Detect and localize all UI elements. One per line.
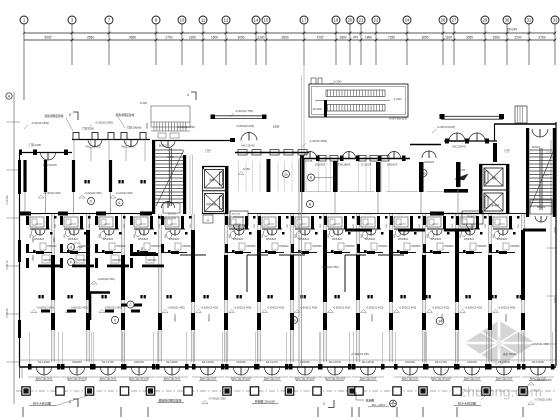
column square at x60 — [56, 387, 64, 395]
svg-text:LW1830: LW1830 — [72, 360, 82, 364]
svg-text:PM0822: PM0822 — [345, 245, 355, 248]
svg-text:-0.200(21.850): -0.200(21.850) — [31, 121, 49, 125]
svg-text:800 900: 800 900 — [137, 214, 146, 216]
svg-text:11: 11 — [201, 18, 206, 23]
svg-text:MLC29′30: MLC29′30 — [329, 360, 342, 364]
svg-text:3650: 3650 — [281, 36, 288, 40]
svg-text:1100: 1100 — [445, 36, 452, 40]
svg-text:1800: 1800 — [339, 36, 346, 40]
svg-text:1100: 1100 — [258, 36, 265, 40]
svg-text:PM0822: PM0822 — [444, 245, 454, 248]
svg-text:zhulong.com: zhulong.com — [460, 384, 543, 400]
svg-text:2200: 2200 — [189, 36, 196, 40]
svg-text:10: 10 — [180, 18, 185, 23]
svg-text:WM0822: WM0822 — [464, 238, 475, 241]
svg-text:-0.600(22.450): -0.600(22.450) — [333, 306, 351, 310]
ramp detail box inner — [312, 87, 406, 115]
svg-text:6: 6 — [119, 201, 121, 205]
L-shaped balcony walls lower mid — [247, 255, 268, 292]
stair core 1 outer walls — [152, 140, 155, 214]
svg-text:担架电梯: 担架电梯 — [206, 202, 217, 206]
svg-text:电梯: 电梯 — [491, 176, 497, 180]
elevator car 1A — [205, 170, 224, 189]
svg-text:30: 30 — [422, 172, 426, 176]
svg-text:WM0822: WM0822 — [398, 238, 409, 241]
bathroom cluster at x460 — [460, 217, 474, 227]
svg-text:LC41'16: LC41'16 — [5, 260, 9, 270]
connector wall x494 — [494, 124, 496, 141]
svg-text:WM0822: WM0822 — [299, 238, 310, 241]
svg-text:阳台门洞 2100: 阳台门洞 2100 — [100, 377, 117, 381]
svg-text:-0.300(21.750): -0.300(21.750) — [235, 109, 253, 113]
svg-text:LW1830: LW1830 — [236, 360, 246, 364]
column square at x26 — [22, 387, 30, 395]
jambs far-left — [33, 150, 37, 156]
svg-text:800 900: 800 900 — [265, 214, 274, 216]
svg-text:门洞 2100: 门洞 2100 — [29, 143, 41, 147]
stair 1 bottom landing box — [163, 203, 180, 213]
svg-text:阳台 200x60: 阳台 200x60 — [503, 352, 517, 356]
svg-text:470: 470 — [353, 36, 359, 40]
last mid unit window arcs LW1824b — [422, 151, 429, 158]
svg-text:±0.000: ±0.000 — [312, 107, 321, 111]
column square at x523 — [519, 387, 527, 395]
svg-text:31: 31 — [527, 18, 532, 23]
svg-text:7250: 7250 — [388, 36, 395, 40]
wall post bumps on top wall — [73, 133, 79, 140]
svg-text:69.040: 69.040 — [507, 28, 517, 32]
svg-text:-0.600(22.450): -0.600(22.450) — [97, 277, 115, 281]
svg-text:2700: 2700 — [538, 36, 545, 40]
svg-text:29: 29 — [483, 18, 488, 23]
svg-text:250/20: 250/20 — [291, 314, 294, 322]
svg-text:阳台门洞 2100: 阳台门洞 2100 — [496, 377, 513, 381]
bathroom cluster at x165 — [165, 217, 179, 227]
toilet in cluster x460 — [461, 229, 466, 236]
svg-text:250/20: 250/20 — [505, 314, 508, 322]
svg-text:-0.100(21.850): -0.100(21.850) — [177, 125, 195, 129]
svg-text:PM0822: PM0822 — [116, 245, 126, 248]
svg-text:-0.100(22.950): -0.100(22.950) — [43, 191, 61, 195]
door arcs MLC3625 — [41, 153, 49, 161]
svg-text:-0.025(13.025): -0.025(13.025) — [437, 125, 455, 129]
bathroom cluster at x64 — [64, 217, 78, 227]
bathroom cluster at x30 — [30, 217, 44, 227]
bottom axis dashed line — [16, 390, 556, 392]
svg-text:800 900: 800 900 — [364, 214, 373, 216]
party wall x193 — [191, 214, 193, 362]
svg-text:柱子大样详图: 柱子大样详图 — [458, 401, 476, 406]
svg-text:-0.600(22.450): -0.600(22.450) — [432, 306, 450, 310]
bottom ticks — [22, 407, 24, 417]
svg-text:MW0822: MW0822 — [43, 260, 53, 262]
column square at x150 — [146, 387, 154, 395]
entry door arcs MLC2040 no2 (opening up) — [449, 133, 457, 141]
svg-text:-1.200: -1.200 — [393, 97, 402, 101]
svg-text:-0.600(22.450): -0.600(22.450) — [70, 306, 88, 310]
svg-text:MLC2040: MLC2040 — [241, 144, 254, 148]
svg-text:PM0822: PM0822 — [279, 245, 289, 248]
svg-text:2650: 2650 — [87, 36, 94, 40]
svg-text:-0.300: -0.300 — [139, 101, 147, 105]
elevator car 1B — [205, 194, 224, 212]
grid axis 1 — [20, 16, 28, 24]
svg-text:17: 17 — [302, 18, 307, 23]
svg-text:PM0822: PM0822 — [81, 245, 91, 248]
svg-text:800 900: 800 900 — [33, 214, 42, 216]
column square at x227 — [223, 387, 231, 395]
svg-text:-0.100(22.950): -0.100(22.950) — [84, 191, 102, 195]
svg-text:WM0822: WM0822 — [103, 238, 114, 241]
top wall right core y124 — [494, 123, 556, 125]
svg-text:1500: 1500 — [492, 36, 499, 40]
column square at x317 — [313, 387, 321, 395]
svg-text:MLC2730: MLC2730 — [102, 360, 114, 364]
svg-text:33: 33 — [553, 18, 558, 23]
grid axis 22 — [372, 16, 380, 24]
party wall x160 — [158, 214, 160, 362]
left outer wall thick parts — [18, 160, 21, 194]
svg-text:-0.600(22.450): -0.600(22.450) — [399, 306, 417, 310]
stair 1 exterior steps above — [151, 106, 190, 127]
top dimension line 2 — [24, 39, 555, 41]
column square at x359 — [355, 387, 363, 395]
toilet in cluster x229 — [230, 231, 235, 238]
svg-text:阳台门洞 2100: 阳台门洞 2100 — [402, 377, 419, 381]
svg-text:柱断面 250x500: 柱断面 250x500 — [255, 399, 275, 403]
svg-text:-0.100(21.850): -0.100(21.850) — [309, 139, 327, 143]
bathroom cluster at x134 — [134, 217, 148, 227]
right core exterior stair bump — [515, 106, 527, 123]
bathroom cluster at x229 — [229, 217, 243, 227]
svg-text:雨篷详图见建施: 雨篷详图见建施 — [116, 113, 135, 117]
unit divider h-lines y191 — [306, 191, 330, 193]
corridor wall y214 right — [430, 213, 479, 215]
arcs and windows x300-410 — [304, 152, 311, 159]
left outer wall — [19, 152, 21, 366]
stair1 landing small rects — [158, 133, 166, 138]
svg-text:WM0822: WM0822 — [332, 238, 343, 241]
grid axis 9 — [152, 16, 160, 24]
svg-text:担架电梯: 担架电梯 — [489, 203, 500, 207]
svg-text:22: 22 — [374, 18, 379, 23]
bathroom cluster at x99 — [99, 217, 113, 227]
svg-text:WLC3125: WLC3125 — [121, 145, 135, 149]
door arcs MLC22525 — [88, 140, 95, 147]
svg-text:1950: 1950 — [53, 237, 56, 243]
H marks upper row left — [84, 180, 86, 183]
svg-text:3050: 3050 — [237, 36, 244, 40]
column square at x188 — [184, 387, 192, 395]
stair core 2 walls — [526, 128, 529, 217]
grid axis 11 — [199, 16, 207, 24]
grid axis 19 — [332, 16, 340, 24]
circled 34 — [436, 317, 444, 325]
circled F — [68, 259, 75, 266]
svg-text:F: F — [70, 261, 72, 265]
bottom wall y367 — [19, 366, 556, 368]
top dimension line 1 — [24, 32, 555, 34]
toilet in cluster x262 — [263, 229, 268, 236]
thin verticals under top-left wall — [73, 140, 75, 161]
column square at x486 — [482, 387, 490, 395]
bathroom cluster at x361 — [361, 217, 375, 227]
svg-text:6: 6 — [114, 319, 116, 323]
bathroom cluster at x493 — [493, 217, 507, 227]
svg-text:阳台门洞 2100: 阳台门洞 2100 — [36, 377, 53, 381]
svg-text:-0.700(21.000): -0.700(21.000) — [534, 398, 552, 402]
circled 19 — [283, 171, 290, 178]
svg-text:LW1830: LW1830 — [300, 360, 310, 364]
svg-text:LW1824: LW1824 — [424, 160, 435, 164]
toilet in cluster x361 — [362, 231, 367, 238]
svg-text:-0.600(22.450): -0.600(22.450) — [300, 306, 318, 310]
right dimension line — [550, 140, 552, 370]
svg-text:1500: 1500 — [211, 36, 218, 40]
grid axis 29 — [481, 16, 489, 24]
svg-text:阳台门洞 250x200: 阳台门洞 250x200 — [325, 377, 346, 381]
svg-text:楼电梯详图见建施: 楼电梯详图见建施 — [158, 398, 181, 403]
svg-text:1800: 1800 — [365, 36, 372, 40]
svg-text:Bt1022: Bt1022 — [532, 146, 541, 149]
svg-text:-0.600(22.450): -0.600(22.450) — [36, 306, 54, 310]
party wall x325 — [323, 214, 325, 362]
svg-text:门厅: 门厅 — [504, 148, 510, 153]
jambs right entry — [445, 139, 449, 144]
svg-text:800 900: 800 900 — [496, 214, 505, 216]
mid section horizontal wall y213 — [248, 213, 430, 215]
grid axis 24 — [403, 16, 411, 24]
grid axis 27 — [450, 16, 458, 24]
column square at x89 — [85, 387, 93, 395]
column square at x124 — [120, 387, 128, 395]
circled 18b — [290, 316, 297, 323]
top wall x309-410 under ramp y152 — [300, 158, 410, 160]
party wall x292 — [290, 214, 292, 362]
svg-text:门洞 200x60: 门洞 200x60 — [127, 126, 142, 130]
svg-text:-0.600(22.450): -0.600(22.450) — [234, 306, 252, 310]
grid axis 10 — [178, 16, 186, 24]
svg-text:-0.100(22.950): -0.100(22.950) — [115, 191, 133, 195]
stair 1 treads — [156, 149, 184, 151]
svg-text:250/20: 250/20 — [174, 314, 177, 322]
J09 circle — [390, 400, 397, 407]
right outer wall — [555, 122, 557, 366]
window mullion verticals — [238, 161, 240, 192]
svg-text:阳台门洞 2100: 阳台门洞 2100 — [360, 377, 377, 381]
svg-text:WM0822: WM0822 — [233, 238, 244, 241]
left section lower band fixtures — [38, 265, 60, 268]
svg-text:雨篷详图见建施: 雨篷详图见建施 — [389, 116, 408, 120]
party wall x226 — [224, 214, 226, 362]
svg-text:WM0822: WM0822 — [138, 238, 149, 241]
svg-text:WM0822: WM0822 — [68, 238, 79, 241]
left dimension line — [13, 92, 15, 404]
svg-text:4650: 4650 — [129, 36, 136, 40]
grid axis 14 — [252, 16, 260, 24]
toilet in cluster x30 — [31, 229, 36, 236]
svg-text:24: 24 — [405, 18, 410, 23]
svg-text:1950: 1950 — [32, 237, 35, 243]
svg-text:MW0822: MW0822 — [147, 260, 157, 262]
svg-text:阳台门洞 2100: 阳台门洞 2100 — [464, 377, 481, 381]
stair 1 outer corridor line — [189, 155, 191, 214]
left balcony skirt — [19, 367, 21, 378]
svg-text:-0.025(23.025): -0.025(23.025) — [236, 124, 254, 128]
top wall far-left y152.5 — [19, 152, 72, 154]
top wall x410-441 y144 — [410, 144, 441, 146]
svg-text:800 900: 800 900 — [331, 214, 340, 216]
svg-text:WM0822: WM0822 — [266, 238, 277, 241]
ramp hatch band lower — [326, 105, 385, 112]
partial wall stubs y255 — [180, 254, 206, 256]
party wall x391 — [389, 214, 391, 362]
svg-text:Bt1022: Bt1022 — [537, 206, 546, 209]
svg-text:PM0822: PM0822 — [378, 245, 388, 248]
right core PM room — [462, 211, 483, 224]
upper zone thick wall bars — [300, 158, 305, 192]
small shaft rects under elevator1 — [203, 215, 213, 223]
svg-text:-0.600(22.450): -0.600(22.450) — [104, 306, 122, 310]
svg-text:WM0822: WM0822 — [34, 238, 45, 241]
svg-text:-0.600(22.450): -0.600(22.450) — [167, 306, 185, 310]
svg-text:5: 5 — [90, 200, 92, 204]
toilet in cluster x427 — [428, 231, 433, 238]
toilet in cluster x493 — [494, 231, 499, 238]
grid axis 15 — [262, 16, 270, 24]
bathroom cluster at x427 — [427, 217, 441, 227]
bathroom cluster at x328 — [328, 217, 342, 227]
party wall x457 — [455, 214, 457, 362]
svg-text:250/20: 250/20 — [441, 314, 444, 322]
jamb blocks x300-410 — [300, 156, 304, 162]
svg-text:-0.300: -0.300 — [333, 80, 342, 84]
svg-text:PM0822: PM0822 — [477, 245, 487, 248]
svg-text:LW1630: LW1630 — [134, 360, 144, 364]
circled 5 — [88, 198, 95, 205]
elevator shaft 2 walls — [479, 164, 482, 214]
toilet in cluster x295 — [296, 231, 301, 238]
svg-text:阳台门洞 250x200: 阳台门洞 250x200 — [295, 377, 316, 381]
circled 30 right — [420, 170, 427, 177]
stair 2 break line — [530, 152, 553, 208]
svg-text:LW1825: LW1825 — [315, 163, 326, 167]
svg-text:800 900: 800 900 — [397, 214, 406, 216]
lobby top wall y140 x186-235 — [186, 140, 235, 142]
svg-text:J09—2004: J09—2004 — [371, 403, 385, 407]
circled G — [68, 244, 75, 251]
thick horiz pieces y230 — [345, 229, 372, 232]
ramp detail box outer — [309, 84, 408, 117]
svg-text:-0.600(22.450): -0.600(22.450) — [366, 306, 384, 310]
svg-text:LW1630: LW1630 — [405, 360, 415, 364]
svg-text:MLC3030: MLC3030 — [532, 360, 544, 364]
circled 6 — [116, 199, 123, 206]
grid axis 21 — [357, 16, 365, 24]
circled 6b — [111, 316, 118, 323]
grid axis 26 — [439, 16, 447, 24]
svg-text:门厅: 门厅 — [205, 148, 211, 153]
svg-text:WM0822: WM0822 — [431, 238, 442, 241]
toilet in cluster x394 — [395, 229, 400, 236]
grid axis 20 — [346, 16, 354, 24]
svg-text:PM0822: PM0822 — [182, 245, 192, 248]
svg-text:19: 19 — [334, 18, 339, 23]
grid line 17 extension — [303, 65, 305, 152]
party wall x259 — [257, 214, 259, 362]
toilet in cluster x99 — [100, 231, 105, 238]
svg-text:1500: 1500 — [273, 125, 280, 129]
party wall x123 — [121, 214, 123, 362]
svg-text:阳台门洞 250x200: 阳台门洞 250x200 — [431, 377, 452, 381]
column square at x397 — [393, 387, 401, 395]
circled C — [127, 301, 134, 308]
stair 2 bottom landing room — [530, 200, 552, 214]
stair 1 break line — [156, 150, 184, 206]
svg-text:-0.600(22.450): -0.600(22.450) — [267, 306, 285, 310]
arrow -0.05 right hall — [455, 174, 468, 180]
L-wall left-centre thick — [90, 293, 110, 321]
door arcs MLC3125 — [124, 140, 131, 147]
svg-text:250/20: 250/20 — [371, 314, 374, 322]
corridor wall y222 right core small — [509, 213, 526, 215]
svg-text:-0.600(22.450): -0.600(22.450) — [498, 306, 516, 310]
svg-text:-0.620(21.080): -0.620(21.080) — [531, 342, 548, 346]
svg-text:MLC2170: MLC2170 — [266, 360, 278, 364]
party wall x358 — [356, 214, 358, 362]
right hall wall piece y191 — [444, 189, 468, 193]
stair 1 top door arcs — [161, 141, 168, 148]
stair 2 treads — [530, 149, 553, 151]
svg-text:阳台门洞 2100: 阳台门洞 2100 — [164, 377, 181, 381]
right entry wall y141 — [444, 140, 497, 142]
bathroom cluster at x262 — [262, 217, 276, 227]
ramp mid landing line — [315, 100, 390, 102]
svg-text:2500: 2500 — [146, 123, 149, 129]
svg-text:2500: 2500 — [77, 246, 83, 249]
svg-text:WM0822: WM0822 — [169, 238, 180, 241]
entry door arcs MLC2040 no1 (opening up) — [241, 133, 249, 141]
room PM121B — [230, 211, 248, 225]
svg-text:14: 14 — [254, 18, 259, 23]
party wall x523 — [521, 214, 523, 362]
circled R — [308, 174, 315, 181]
svg-text:12: 12 — [224, 18, 229, 23]
bottom wall upper line y360 — [19, 359, 556, 361]
elevator car 2B — [484, 193, 503, 211]
left section horizontal wall y213 — [19, 213, 152, 215]
svg-text:2700: 2700 — [165, 36, 172, 40]
toilet in cluster x165 — [166, 231, 171, 238]
svg-text:2200: 2200 — [514, 36, 521, 40]
svg-text:-0.620(21.080): -0.620(21.080) — [534, 378, 552, 382]
svg-text:PM0822: PM0822 — [246, 245, 256, 248]
svg-text:MLC2040: MLC2040 — [452, 145, 465, 149]
grid axis 12 — [222, 16, 230, 24]
bathroom cluster at x394 — [394, 217, 408, 227]
svg-text:30: 30 — [505, 18, 510, 23]
window rects mid-top — [238, 150, 247, 156]
bathroom cluster at x295 — [295, 217, 309, 227]
svg-text:250/20: 250/20 — [325, 314, 328, 322]
svg-text:800 900: 800 900 — [430, 214, 439, 216]
svg-text:MW0822: MW0822 — [112, 260, 122, 262]
svg-text:-0.600(22.450): -0.600(22.450) — [465, 306, 483, 310]
canopy 2 — [441, 115, 503, 117]
grid axis 30 — [503, 16, 511, 24]
svg-text:MLC3630: MLC3630 — [202, 360, 214, 364]
svg-text:21: 21 — [359, 18, 364, 23]
